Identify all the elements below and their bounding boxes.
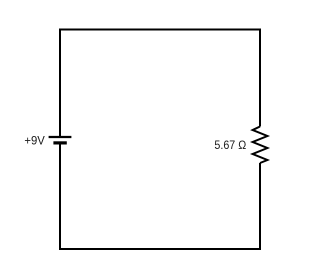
svg-text:5.67 Ω: 5.67 Ω bbox=[214, 138, 246, 152]
resistor R1, 5.67 ohm zigzag bbox=[253, 127, 268, 164]
battery V1, 9V source bbox=[49, 137, 72, 143]
wire: left conductor, battery negative terminal down to bottom-left corner bbox=[59, 143, 61, 250]
wire: right conductor, top-right corner down to resistor top lead bbox=[259, 29, 261, 127]
battery positive (long) plate bbox=[49, 136, 72, 138]
svg-text:+9V: +9V bbox=[24, 134, 45, 148]
wire: top conductor from node A (top-left) to node B (top-right) bbox=[59, 29, 261, 31]
wire: left conductor, top-left corner down to battery positive terminal bbox=[59, 29, 61, 138]
wire: bottom conductor from bottom-left to bottom-right corner bbox=[59, 248, 261, 250]
wire: right conductor, resistor bottom lead down to bottom-right corner bbox=[259, 163, 261, 250]
battery negative (short thick) plate bbox=[53, 141, 66, 144]
